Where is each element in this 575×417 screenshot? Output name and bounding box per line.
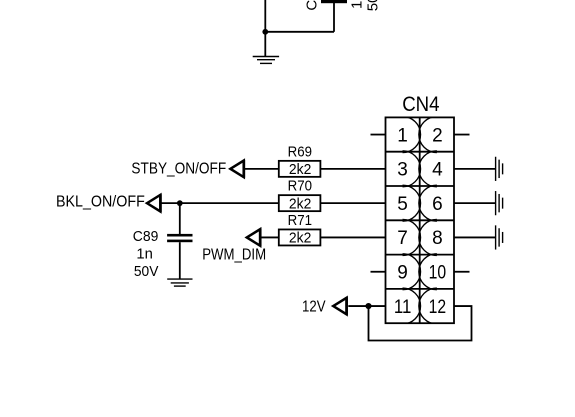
svg-text:R70: R70: [288, 178, 312, 195]
svg-text:CN4: CN4: [402, 93, 440, 116]
svg-text:12V: 12V: [302, 298, 326, 315]
svg-text:50V: 50V: [134, 263, 159, 280]
svg-text:6: 6: [432, 194, 443, 215]
svg-text:50V: 50V: [364, 0, 381, 11]
svg-text:R71: R71: [288, 212, 312, 229]
svg-text:8: 8: [432, 228, 443, 249]
svg-text:2k2: 2k2: [289, 161, 311, 178]
svg-text:4: 4: [432, 160, 443, 181]
svg-text:C88: C88: [303, 0, 320, 11]
svg-text:5: 5: [397, 194, 408, 215]
svg-text:7: 7: [397, 228, 408, 249]
svg-text:2k2: 2k2: [289, 195, 311, 212]
svg-text:1: 1: [397, 125, 408, 146]
svg-text:1n: 1n: [136, 246, 153, 263]
svg-text:1n: 1n: [349, 0, 366, 9]
svg-text:R69: R69: [288, 143, 312, 160]
svg-text:STBY_ON/OFF: STBY_ON/OFF: [131, 161, 226, 178]
svg-text:BKL_ON/OFF: BKL_ON/OFF: [56, 194, 145, 211]
svg-text:3: 3: [397, 160, 408, 181]
svg-text:2: 2: [432, 125, 443, 146]
svg-text:11: 11: [394, 297, 412, 318]
svg-text:C89: C89: [133, 228, 159, 245]
svg-text:2k2: 2k2: [289, 230, 311, 247]
svg-text:10: 10: [429, 263, 447, 284]
svg-text:9: 9: [397, 263, 408, 284]
svg-text:PWM_DIM: PWM_DIM: [202, 246, 266, 263]
svg-text:12: 12: [429, 297, 447, 318]
